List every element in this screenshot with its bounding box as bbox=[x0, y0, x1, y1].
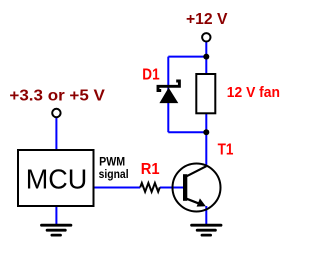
node junction bottom (fan/diode/collector) bbox=[203, 129, 209, 135]
svg-text:+3.3 or +5 V: +3.3 or +5 V bbox=[9, 88, 105, 105]
+12 V supply terminal bbox=[202, 33, 210, 41]
wire bottom horizontal from diode branch bbox=[168, 131, 206, 133]
transistor T1 circle bbox=[173, 164, 221, 212]
wire R1 to T1 base bbox=[160, 187, 184, 189]
svg-text:12 V fan: 12 V fan bbox=[227, 84, 280, 101]
wire fan bottom to T1 collector bbox=[205, 113, 207, 167]
diode D1 (zener) cathode bar bbox=[158, 81, 179, 91]
svg-text:MCU: MCU bbox=[26, 163, 88, 194]
wire MCU PWM output to R1 bbox=[94, 187, 141, 189]
svg-text:R1: R1 bbox=[141, 161, 160, 178]
wire MCU bottom to ground bbox=[55, 206, 57, 225]
wire top horizontal to diode branch bbox=[168, 56, 206, 58]
12 V fan (motor) bbox=[196, 74, 215, 113]
svg-text:D1: D1 bbox=[142, 67, 160, 84]
transistor T1 emitter arrow bbox=[197, 198, 206, 206]
MCU box U1 bbox=[18, 150, 94, 206]
svg-text:signal: signal bbox=[99, 167, 129, 181]
transistor T1 emitter lead bbox=[186, 198, 204, 205]
resistor R1 bbox=[140, 183, 160, 192]
ground (MCU) bbox=[42, 225, 71, 235]
wire +12V terminal down to fan top bbox=[205, 42, 207, 75]
transistor T1 collector lead bbox=[186, 166, 207, 177]
svg-text:+12 V: +12 V bbox=[186, 11, 228, 28]
wire diode branch vertical bbox=[167, 57, 169, 133]
svg-text:T1: T1 bbox=[218, 142, 234, 159]
wire supply to MCU top bbox=[55, 117, 57, 150]
+3.3/+5V supply terminal bbox=[52, 109, 60, 117]
transistor T1 base bar bbox=[183, 174, 187, 201]
diode D1 triangle bbox=[159, 88, 178, 104]
node junction top (fan/diode/+12V) bbox=[203, 54, 209, 60]
ground (T1 emitter) bbox=[192, 225, 221, 235]
wire T1 emitter to ground bbox=[205, 206, 207, 225]
